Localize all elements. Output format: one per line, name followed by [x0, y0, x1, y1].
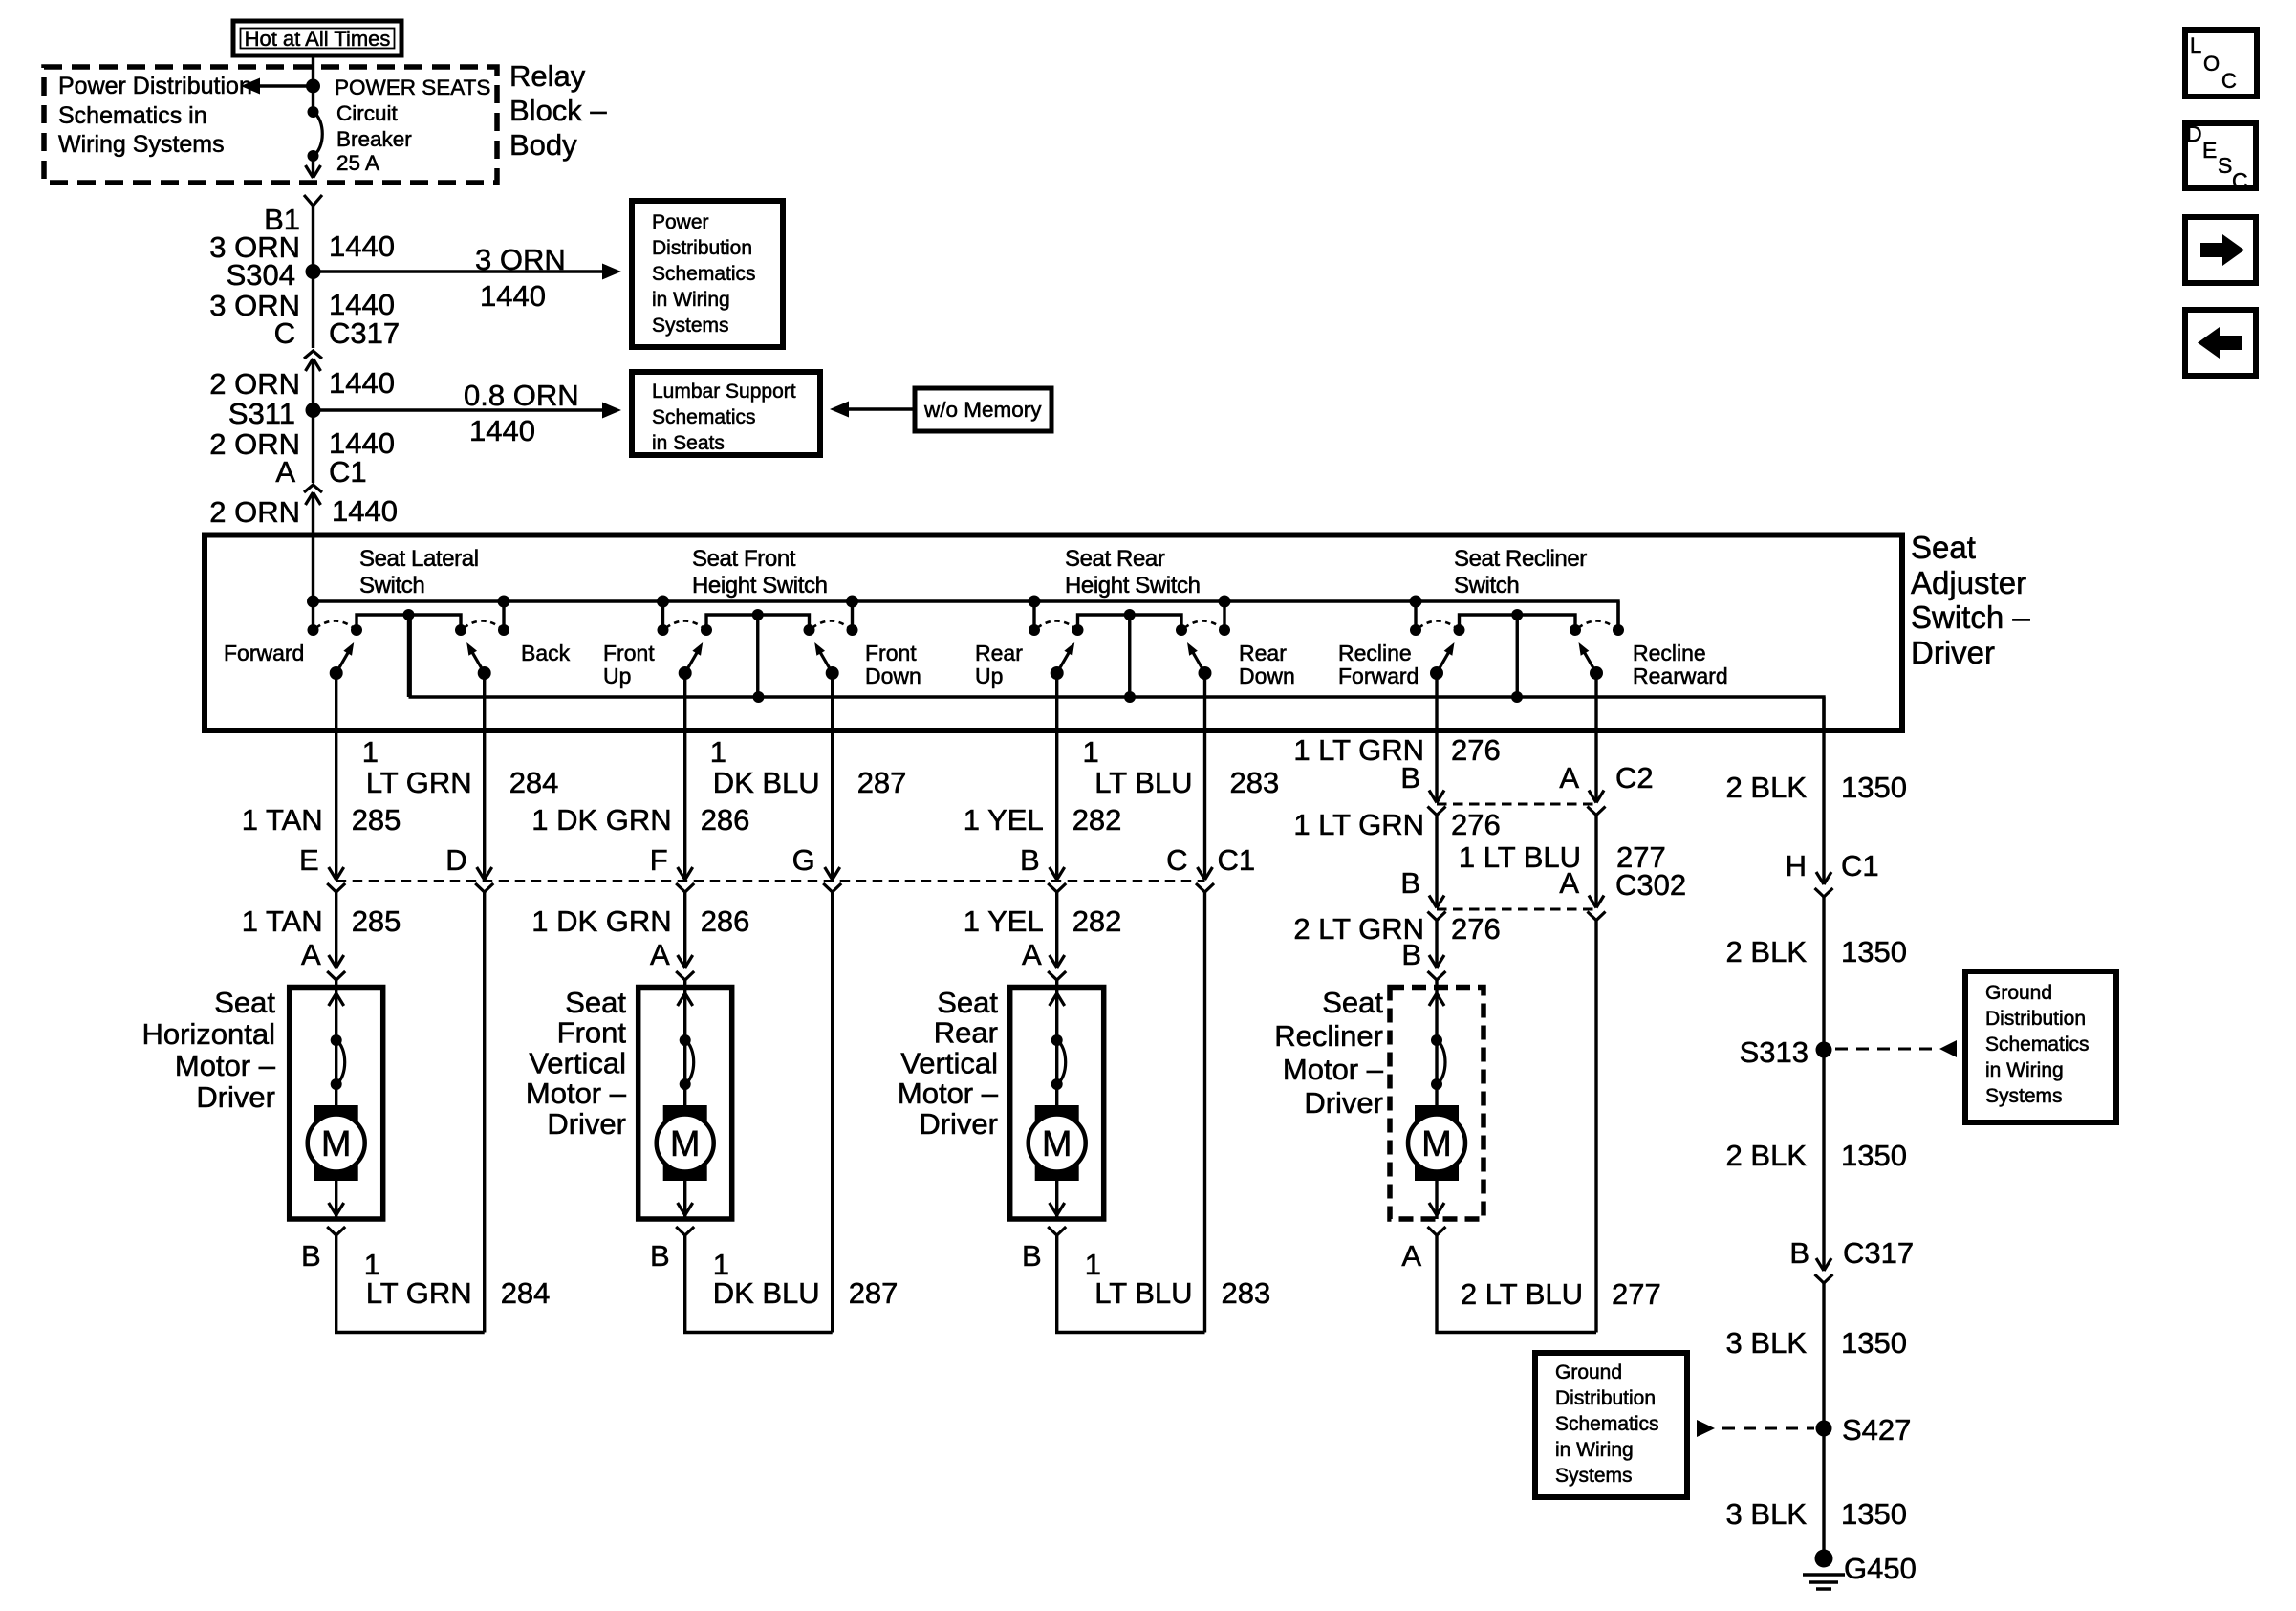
connector B at C1 row	[1050, 867, 1057, 880]
svg-text:B: B	[301, 1239, 321, 1273]
arrow at relay box exit	[306, 165, 314, 178]
svg-text:Driver: Driver	[919, 1107, 998, 1141]
switch group 3 bus stubs	[1029, 596, 1041, 608]
switch group 4 bracket contact	[1460, 615, 1576, 630]
svg-text:Schematics: Schematics	[1555, 1413, 1659, 1435]
wire E to Seat Horizontal Motor	[335, 892, 337, 968]
svg-text:Motor –: Motor –	[526, 1077, 627, 1110]
wire Recline Rearward from switch to C2 row	[1594, 673, 1597, 802]
motor M1 lower internal wire	[335, 1181, 337, 1219]
wire Recline Forward from switch to C2 row	[1435, 673, 1438, 802]
svg-text:C302: C302	[1615, 868, 1686, 902]
motor M1 connector A above box	[329, 955, 336, 968]
svg-text:Systems: Systems	[1985, 1085, 2063, 1107]
svg-text:282: 282	[1072, 904, 1122, 938]
svg-text:2 BLK: 2 BLK	[1726, 771, 1808, 804]
wire S311 to C1	[312, 410, 314, 483]
switch group 2 left wiper	[679, 666, 692, 680]
wire C1 to Seat Adjuster Switch box	[312, 492, 314, 601]
svg-text:Wiring Systems: Wiring Systems	[58, 131, 225, 158]
dashed lead Ground Distribution box to S427	[1697, 1420, 1715, 1437]
svg-text:Rear: Rear	[1239, 641, 1287, 665]
svg-text:D: D	[2186, 121, 2202, 146]
connector G at C1 row	[825, 867, 833, 880]
svg-text:M: M	[1042, 1124, 1072, 1165]
svg-text:B: B	[1022, 1239, 1042, 1273]
svg-text:M: M	[670, 1124, 701, 1165]
svg-text:Driver: Driver	[1911, 635, 1995, 670]
svg-text:Seat Lateral: Seat Lateral	[359, 546, 479, 572]
svg-text:Back: Back	[521, 641, 571, 665]
svg-text:1440: 1440	[469, 414, 535, 447]
legend icon right arrow	[2185, 217, 2256, 283]
motor M3 motor symbol	[1035, 1105, 1079, 1181]
switch group 4 bracket center tap	[1516, 615, 1519, 697]
wire D from switch to connector C1 row	[483, 673, 486, 880]
svg-text:Forward: Forward	[1338, 664, 1419, 688]
motor M1 box	[290, 988, 383, 1220]
svg-text:Seat Front: Seat Front	[692, 546, 796, 572]
svg-text:Recline: Recline	[1338, 641, 1412, 665]
motor M4 connector A below box	[1428, 1227, 1446, 1235]
svg-text:Schematics: Schematics	[652, 263, 756, 285]
svg-text:3 BLK: 3 BLK	[1726, 1497, 1808, 1531]
svg-text:Schematics in: Schematics in	[58, 102, 207, 129]
switch group 4 right wiper	[1590, 666, 1603, 680]
svg-text:1350: 1350	[1841, 1326, 1907, 1360]
svg-text:Block –: Block –	[509, 94, 607, 127]
motor M2 connector B below box	[676, 1227, 694, 1235]
svg-text:A: A	[1559, 866, 1579, 900]
svg-text:1 TAN: 1 TAN	[242, 904, 323, 938]
svg-text:B: B	[1789, 1236, 1809, 1270]
svg-text:Vertical: Vertical	[900, 1046, 998, 1079]
svg-text:B: B	[650, 1239, 670, 1273]
svg-text:Breaker: Breaker	[336, 127, 412, 151]
arrow w/o Memory to Lumbar box	[847, 407, 915, 410]
w/o Memory box	[915, 388, 1051, 431]
Hot at All Times box	[233, 21, 401, 55]
svg-text:3 ORN: 3 ORN	[475, 243, 566, 276]
svg-text:in Wiring: in Wiring	[1555, 1439, 1634, 1461]
wire S311 to Lumbar Support Schematics box	[314, 408, 605, 411]
svg-text:1 TAN: 1 TAN	[242, 803, 323, 837]
svg-text:287: 287	[849, 1276, 899, 1310]
svg-text:Horizontal: Horizontal	[141, 1017, 275, 1051]
wire E from switch to connector C1 row	[335, 673, 337, 880]
svg-text:F: F	[650, 843, 668, 877]
svg-text:1: 1	[1083, 735, 1099, 769]
svg-text:M: M	[321, 1124, 352, 1165]
motor M4 box	[1390, 988, 1484, 1220]
switch group 3 bracket contact	[1078, 615, 1182, 630]
switch group 1 left wiper	[330, 666, 343, 680]
svg-text:C1: C1	[1218, 843, 1256, 877]
svg-text:Schematics: Schematics	[1985, 1034, 2090, 1056]
svg-text:Seat: Seat	[1911, 530, 1976, 565]
wire B from switch to connector C1 row	[1055, 673, 1058, 880]
svg-text:Systems: Systems	[1555, 1465, 1633, 1487]
svg-text:Driver: Driver	[547, 1107, 626, 1141]
svg-text:Body: Body	[509, 128, 577, 162]
junction dot power feed	[306, 79, 320, 94]
ground wire C317 to G450	[1822, 1283, 1825, 1558]
switch group 3 left wiper	[1051, 666, 1064, 680]
svg-text:Front: Front	[557, 1016, 627, 1050]
switch group 1 bus stubs	[307, 596, 319, 608]
svg-text:1350: 1350	[1841, 935, 1907, 969]
svg-text:B: B	[1400, 761, 1420, 795]
dashed connector line C302 row	[1437, 908, 1596, 911]
legend icon LOC	[2185, 30, 2257, 97]
svg-text:H: H	[1786, 849, 1807, 882]
svg-text:S: S	[2218, 153, 2232, 178]
svg-text:Front: Front	[865, 641, 917, 665]
svg-text:in Wiring: in Wiring	[652, 289, 730, 311]
svg-text:Lumbar Support: Lumbar Support	[652, 381, 796, 403]
svg-text:Seat: Seat	[1322, 986, 1383, 1019]
svg-text:Systems: Systems	[652, 315, 729, 337]
motor M4 connector B above box	[1429, 955, 1437, 968]
svg-text:Hot at All Times: Hot at All Times	[245, 27, 391, 51]
svg-text:POWER SEATS: POWER SEATS	[335, 76, 490, 99]
wire to Seat Recliner Motor B	[1435, 921, 1438, 969]
motor M2 connector A above box	[678, 955, 685, 968]
svg-text:Down: Down	[1239, 664, 1295, 688]
wire G return to motor loop	[831, 892, 834, 1333]
svg-text:1 DK GRN: 1 DK GRN	[531, 904, 671, 938]
svg-text:E: E	[2202, 138, 2217, 163]
splice S427	[1816, 1421, 1832, 1437]
svg-text:1350: 1350	[1841, 1497, 1907, 1531]
connector E at C1 row	[329, 867, 336, 880]
svg-text:285: 285	[352, 904, 401, 938]
svg-text:284: 284	[509, 766, 559, 799]
svg-text:Ground: Ground	[1985, 982, 2052, 1004]
svg-text:L: L	[2190, 33, 2201, 57]
svg-text:Forward: Forward	[224, 641, 304, 665]
svg-text:1 DK GRN: 1 DK GRN	[531, 803, 671, 837]
motor M3 return wire to partner	[1057, 1235, 1205, 1333]
switch group 4 coupling dashed arcs	[1419, 621, 1457, 629]
svg-text:A: A	[1401, 1239, 1421, 1273]
switch group 3 bracket center tap	[1128, 615, 1131, 697]
svg-text:C2: C2	[1615, 761, 1654, 795]
Power Distribution Schematics box	[632, 201, 783, 347]
svg-text:S311: S311	[228, 397, 295, 430]
dashed connector line C2 row	[1437, 803, 1596, 806]
motor M1 connector B below box	[327, 1227, 345, 1235]
wire C return to motor loop	[1203, 892, 1206, 1333]
svg-text:Driver: Driver	[196, 1080, 275, 1114]
svg-text:A: A	[1559, 761, 1579, 795]
svg-text:Vertical: Vertical	[529, 1046, 626, 1079]
switch group 2 coupling dashed arcs	[666, 621, 704, 629]
motor M1 motor symbol	[314, 1105, 358, 1181]
connector F at C1 row	[678, 867, 685, 880]
svg-text:1: 1	[362, 735, 379, 769]
svg-text:1440: 1440	[332, 494, 398, 528]
wire A side down to motor loop	[1594, 921, 1597, 1333]
svg-text:Rear: Rear	[934, 1016, 998, 1050]
motor M4 return wire to partner	[1437, 1235, 1596, 1333]
wire F from switch to connector C1 row	[683, 673, 686, 880]
motor M3 box	[1010, 988, 1104, 1220]
connector D at C1 row	[477, 867, 485, 880]
svg-text:276: 276	[1451, 912, 1501, 946]
svg-text:S427: S427	[1842, 1413, 1911, 1447]
splice S304	[306, 264, 321, 279]
svg-text:A: A	[650, 938, 670, 971]
svg-text:B: B	[1020, 843, 1040, 877]
Relay Block - Body dashed box	[44, 67, 497, 183]
svg-text:283: 283	[1230, 766, 1280, 799]
svg-text:1 YEL: 1 YEL	[964, 904, 1044, 938]
svg-text:276: 276	[1451, 733, 1501, 767]
motor M3 internal wire with breaker	[1055, 988, 1058, 1106]
motor M4 internal wire with breaker	[1435, 988, 1438, 1106]
svg-text:Driver: Driver	[1304, 1086, 1383, 1120]
wire C317 to S311	[312, 359, 314, 410]
svg-text:286: 286	[701, 904, 750, 938]
motor M2 motor symbol	[663, 1105, 707, 1181]
switch group 1 right wiper	[478, 666, 491, 680]
arrow to Power Distribution Schematics	[258, 84, 314, 87]
switch group 2 bracket center tap	[756, 615, 759, 697]
motor M2 lower internal wire	[683, 1181, 686, 1219]
motor M2 internal wire with breaker	[683, 988, 686, 1106]
svg-text:Switch: Switch	[359, 573, 424, 599]
svg-text:LT BLU: LT BLU	[1094, 766, 1192, 799]
ground wire C1 to C317	[1822, 897, 1825, 1271]
switch group 4 bus stubs	[1410, 596, 1422, 608]
splice S313	[1816, 1042, 1832, 1058]
svg-text:Seat: Seat	[214, 986, 275, 1019]
svg-text:A: A	[275, 455, 295, 489]
motor M2 box	[639, 988, 732, 1220]
motor M4 lower internal wire	[1435, 1181, 1438, 1219]
svg-text:Adjuster: Adjuster	[1911, 565, 2026, 600]
svg-text:O: O	[2203, 52, 2220, 76]
legend icon DESC	[2185, 123, 2256, 188]
svg-text:276: 276	[1451, 808, 1501, 841]
svg-text:Distribution: Distribution	[1985, 1008, 2086, 1030]
wire A-A between C2 and C302	[1594, 816, 1597, 908]
svg-text:Switch –: Switch –	[1911, 599, 2030, 635]
svg-text:C: C	[2221, 69, 2237, 93]
wire B1 to S304	[312, 206, 314, 272]
svg-text:B: B	[1400, 866, 1420, 900]
svg-text:Schematics: Schematics	[652, 406, 756, 428]
svg-text:in Seats: in Seats	[652, 432, 725, 454]
svg-text:282: 282	[1072, 803, 1122, 837]
svg-text:Seat: Seat	[565, 986, 626, 1019]
svg-text:1 LT GRN: 1 LT GRN	[1293, 808, 1424, 841]
wire B to Seat Rear Vertical Motor	[1055, 892, 1058, 968]
svg-text:1350: 1350	[1841, 1139, 1907, 1172]
svg-text:Distribution: Distribution	[1555, 1387, 1656, 1409]
svg-text:D: D	[445, 843, 466, 877]
svg-text:1440: 1440	[329, 366, 395, 400]
wire S304 to Power Distribution Schematics box	[314, 270, 605, 272]
motor M3 lower internal wire	[1055, 1181, 1058, 1219]
svg-text:2 ORN: 2 ORN	[209, 495, 300, 529]
svg-text:C317: C317	[1843, 1236, 1914, 1270]
svg-text:Seat Recliner: Seat Recliner	[1454, 546, 1587, 572]
connector B1 chevron	[304, 195, 322, 206]
svg-text:286: 286	[701, 803, 750, 837]
svg-text:Relay: Relay	[509, 59, 586, 93]
svg-text:S313: S313	[1740, 1035, 1809, 1069]
svg-text:M: M	[1421, 1124, 1452, 1165]
motor M3 connector B below box	[1048, 1227, 1066, 1235]
svg-text:Up: Up	[975, 664, 1003, 688]
svg-text:0.8 ORN: 0.8 ORN	[464, 379, 579, 412]
svg-text:2 BLK: 2 BLK	[1726, 1139, 1808, 1172]
connector C at C1 row	[1198, 867, 1205, 880]
motor M1 return wire to partner	[336, 1235, 485, 1333]
Ground Distribution Schematics box upper	[1965, 971, 2116, 1122]
svg-text:G450: G450	[1844, 1552, 1917, 1585]
ground G450	[1815, 1550, 1833, 1568]
switch group 3 coupling dashed arcs	[1037, 621, 1075, 629]
switch group 2 bus stubs	[657, 596, 669, 608]
svg-text:Down: Down	[865, 664, 921, 688]
svg-text:Motor –: Motor –	[1283, 1053, 1384, 1086]
svg-text:C1: C1	[1841, 849, 1879, 882]
switch group 3 right wiper	[1199, 666, 1212, 680]
wire power feed from Hot at All Times	[312, 56, 314, 86]
svg-text:C: C	[2232, 168, 2248, 193]
svg-text:LT BLU: LT BLU	[1094, 1276, 1192, 1310]
svg-text:Up: Up	[603, 664, 631, 688]
wire D return to motor loop	[483, 892, 486, 1333]
Ground Distribution Schematics box lower	[1535, 1353, 1687, 1497]
wire C from switch to connector C1 row	[1203, 673, 1206, 880]
svg-text:287: 287	[857, 766, 907, 799]
svg-text:Rear: Rear	[975, 641, 1023, 665]
Lumbar Support Schematics box	[632, 372, 820, 455]
circuit breaker symbol	[312, 93, 314, 112]
svg-text:S304: S304	[227, 258, 295, 292]
svg-text:C: C	[274, 316, 295, 350]
switch feed bus wire	[314, 601, 1619, 630]
svg-text:E: E	[299, 843, 319, 877]
svg-text:1440: 1440	[329, 229, 395, 263]
switch group 4 left wiper	[1430, 666, 1443, 680]
switch return bus	[410, 615, 1824, 732]
wire G from switch to connector C1 row	[831, 673, 834, 880]
svg-text:G: G	[792, 843, 815, 877]
svg-text:1350: 1350	[1841, 771, 1907, 804]
motor M1 internal wire with breaker	[335, 988, 337, 1106]
motor M2 return wire to partner	[685, 1235, 833, 1333]
svg-text:Recline: Recline	[1633, 641, 1706, 665]
svg-text:LT GRN: LT GRN	[366, 1276, 472, 1310]
svg-text:C1: C1	[329, 455, 367, 489]
switch group 2 bracket contact	[706, 615, 810, 630]
ground wire from switch box to connector C1	[1822, 697, 1825, 884]
svg-text:Rearward: Rearward	[1633, 664, 1728, 688]
switch group 1 bracket contact	[357, 615, 461, 630]
svg-text:in Wiring: in Wiring	[1985, 1059, 2064, 1081]
switch group 2 right wiper	[826, 666, 839, 680]
switch group 1 bracket center tap	[407, 615, 410, 697]
svg-text:LT GRN: LT GRN	[366, 766, 472, 799]
svg-text:Height Switch: Height Switch	[1065, 573, 1201, 599]
svg-text:284: 284	[501, 1276, 551, 1310]
svg-text:277: 277	[1612, 1277, 1661, 1311]
dashed connector line C1 row	[336, 880, 1205, 882]
svg-text:1: 1	[710, 735, 726, 769]
svg-text:25 A: 25 A	[336, 151, 379, 175]
wire B-B between C2 and C302	[1435, 816, 1438, 908]
svg-text:Power: Power	[652, 211, 709, 233]
wire S304 to C317	[312, 272, 314, 348]
svg-text:2 ORN: 2 ORN	[209, 367, 300, 401]
svg-text:Front: Front	[603, 641, 655, 665]
legend icon left arrow	[2185, 310, 2256, 376]
svg-text:2 LT BLU: 2 LT BLU	[1461, 1277, 1583, 1311]
svg-text:1440: 1440	[480, 279, 546, 313]
svg-text:C317: C317	[329, 316, 400, 350]
switch group 1 coupling dashed arcs	[316, 621, 355, 629]
svg-text:2 BLK: 2 BLK	[1726, 935, 1808, 969]
svg-text:Motor –: Motor –	[175, 1049, 276, 1082]
svg-text:Switch: Switch	[1454, 573, 1519, 599]
svg-text:w/o Memory: w/o Memory	[923, 398, 1042, 422]
svg-text:283: 283	[1222, 1276, 1271, 1310]
dashed lead S313 to Ground Distribution box	[1835, 1048, 1937, 1051]
svg-text:A: A	[301, 938, 321, 971]
svg-text:DK BLU: DK BLU	[713, 766, 820, 799]
svg-text:Seat: Seat	[937, 986, 998, 1019]
svg-text:Height Switch: Height Switch	[692, 573, 828, 599]
svg-text:A: A	[1022, 938, 1042, 971]
Seat Adjuster Switch - Driver box	[205, 535, 1902, 731]
wire F to Seat Front Vertical Motor	[683, 892, 686, 968]
svg-text:DK BLU: DK BLU	[713, 1276, 820, 1310]
motor M4 motor symbol	[1415, 1105, 1459, 1181]
svg-text:3 BLK: 3 BLK	[1726, 1326, 1808, 1360]
svg-text:Ground: Ground	[1555, 1361, 1622, 1383]
svg-text:1 YEL: 1 YEL	[964, 803, 1044, 837]
svg-text:Seat Rear: Seat Rear	[1065, 546, 1165, 572]
svg-text:C: C	[1166, 843, 1187, 877]
svg-text:Recliner: Recliner	[1274, 1019, 1383, 1053]
motor M3 connector A above box	[1050, 955, 1057, 968]
svg-text:B: B	[1401, 938, 1421, 971]
svg-text:Circuit: Circuit	[336, 101, 399, 125]
svg-text:Distribution: Distribution	[652, 237, 752, 259]
svg-text:Power Distribution: Power Distribution	[58, 73, 252, 99]
splice S311	[306, 403, 321, 418]
svg-text:Motor –: Motor –	[898, 1077, 999, 1110]
svg-text:285: 285	[352, 803, 401, 837]
